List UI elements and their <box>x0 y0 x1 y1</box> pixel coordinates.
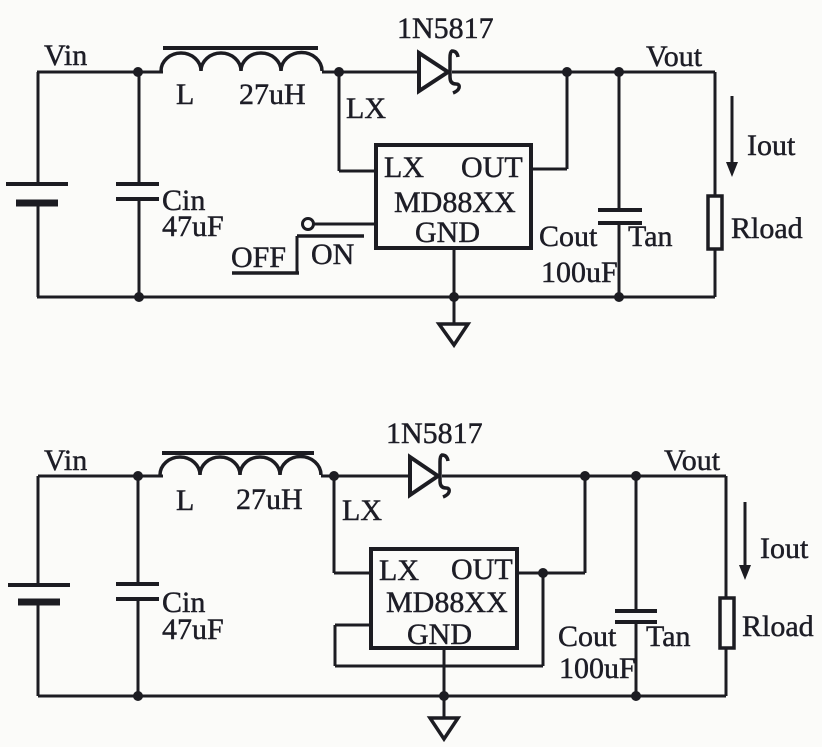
svg-text:Tan: Tan <box>646 620 691 653</box>
switch S1 pole circle <box>303 219 314 230</box>
inductor L2 core bar <box>162 451 314 455</box>
capacitor Cout top plate <box>598 208 642 212</box>
wire GND pin vertical <box>443 648 446 717</box>
svg-text:Cout: Cout <box>539 220 598 253</box>
resistor Rload body <box>708 196 722 249</box>
switch S1 step vertical <box>296 236 299 273</box>
wire FB loop vertical right <box>542 573 545 666</box>
node junction OUT-FB <box>538 568 548 578</box>
node junction LX <box>334 67 344 77</box>
capacitor Cout2 top plate <box>615 609 657 613</box>
svg-text:LX: LX <box>346 92 386 125</box>
svg-text:GND: GND <box>415 216 480 249</box>
svg-text:OUT: OUT <box>461 151 523 184</box>
node junction Cout top <box>614 67 624 77</box>
node junction GND-bottom rail <box>449 292 459 302</box>
svg-text:27uH: 27uH <box>239 78 306 111</box>
inductor L1 core bar <box>163 46 318 50</box>
svg-text:L: L <box>176 484 194 517</box>
wire GND pin vertical <box>453 248 456 323</box>
svg-text:Vout: Vout <box>664 444 721 477</box>
resistor Rload2 body <box>720 598 734 648</box>
wire LX branch horizontal to IC <box>339 170 376 173</box>
battery B2 long plate <box>8 583 70 587</box>
capacitor Cin top plate <box>116 182 159 186</box>
wire bottom rail <box>38 695 726 698</box>
wire left rail upper <box>37 72 40 184</box>
ground symbol <box>439 324 468 345</box>
svg-text:MD88XX: MD88XX <box>394 186 516 219</box>
svg-text:Cout: Cout <box>558 620 617 653</box>
svg-text:OUT: OUT <box>451 553 513 586</box>
node junction Vin-Cin <box>133 67 143 77</box>
svg-text:MD88XX: MD88XX <box>386 586 508 619</box>
svg-text:LX: LX <box>384 151 424 184</box>
svg-text:Vout: Vout <box>646 40 703 73</box>
svg-text:47uF: 47uF <box>162 210 224 243</box>
wire FB pin horizontal <box>335 624 371 627</box>
wire OUT riser <box>566 72 569 169</box>
op-amp U2 MD88XX box <box>371 549 517 648</box>
svg-text:Rload: Rload <box>742 610 814 643</box>
node junction LX2 <box>329 471 339 481</box>
wire right rail lower <box>714 249 717 297</box>
wire OUT pin horizontal <box>531 168 567 171</box>
capacitor Cout2 bottom plate <box>615 620 657 624</box>
node junction Cout2 top <box>631 471 641 481</box>
wire bottom rail <box>37 296 715 299</box>
wire left rail upper <box>37 476 40 585</box>
svg-text:27uH: 27uH <box>236 483 303 516</box>
svg-text:Tan: Tan <box>628 220 673 253</box>
battery B1 long plate <box>6 182 68 186</box>
svg-text:Iout: Iout <box>760 532 809 565</box>
svg-text:GND: GND <box>407 618 472 651</box>
svg-text:LX: LX <box>342 494 382 527</box>
svg-text:LX: LX <box>379 554 419 587</box>
diode D2 1N5817 triangle <box>410 457 438 495</box>
wire OUT riser <box>584 476 587 573</box>
battery B2 short plate <box>18 599 60 606</box>
inductor L1 windings <box>161 53 322 71</box>
capacitor Cin2 bottom plate <box>116 597 159 601</box>
wire LX branch horizontal to IC <box>334 572 371 575</box>
wire OUT pin horizontal <box>517 572 585 575</box>
diode D1 1N5817 triangle <box>419 53 448 91</box>
wire top rail left segment <box>37 71 163 74</box>
wire top rail mid segment <box>322 71 419 74</box>
wire right rail upper <box>725 476 728 598</box>
wire top rail left segment <box>38 475 163 478</box>
capacitor Cin2 top plate <box>116 582 159 586</box>
wire LX branch vertical <box>333 476 336 573</box>
wire FB loop vertical left <box>334 625 337 666</box>
svg-text:100uF: 100uF <box>541 256 618 289</box>
wire right rail upper <box>714 72 717 196</box>
wire LX branch vertical <box>338 72 341 171</box>
wire Cin branch upper <box>137 476 140 584</box>
node junction OUT riser top <box>580 471 590 481</box>
wire FB loop bottom <box>335 665 543 668</box>
capacitor Cin bottom plate <box>116 197 159 201</box>
wire Cin branch upper <box>138 72 141 184</box>
svg-text:Iout: Iout <box>747 129 796 162</box>
wire right rail lower <box>725 648 728 696</box>
svg-text:Vin: Vin <box>44 39 87 72</box>
wire Cout branch lower <box>635 622 638 696</box>
svg-text:Vin: Vin <box>44 444 87 477</box>
diode D1 schottky cathode bar <box>450 51 459 93</box>
inductor L2 windings <box>160 457 321 475</box>
wire left rail lower <box>37 206 40 297</box>
wire Cout branch upper <box>618 72 621 211</box>
wire left rail lower <box>37 605 40 696</box>
node junction Cout2 bottom <box>631 691 641 701</box>
wire Cout branch upper <box>635 476 638 611</box>
battery B1 short plate <box>16 200 58 207</box>
svg-text:Rload: Rload <box>731 212 803 245</box>
node junction Cout bottom <box>614 292 624 302</box>
node junction Cin bottom <box>134 292 144 302</box>
capacitor Cout bottom plate <box>598 221 642 225</box>
svg-text:ON: ON <box>311 238 354 271</box>
ground symbol <box>430 718 458 739</box>
wire Cin branch lower <box>137 599 140 696</box>
wire switch to IC <box>314 223 376 226</box>
diode D2 schottky cathode bar <box>440 455 449 497</box>
wire Cin branch lower <box>138 199 141 297</box>
wire top rail right segment <box>442 475 726 478</box>
node junction GND2-bottom rail <box>439 691 449 701</box>
node junction OUT riser top <box>562 67 572 77</box>
wire Cout branch lower <box>618 223 621 297</box>
wire top rail mid segment <box>321 475 410 478</box>
svg-text:1N5817: 1N5817 <box>397 12 494 45</box>
wire top rail right segment <box>452 71 715 74</box>
svg-text:L: L <box>176 78 194 111</box>
Iout current arrow <box>739 502 751 580</box>
node junction Vin-Cin2 <box>133 471 143 481</box>
svg-text:100uF: 100uF <box>559 652 636 685</box>
node junction Cin2 bottom <box>133 691 143 701</box>
switch S1 OFF contact bar <box>232 271 299 275</box>
svg-text:47uF: 47uF <box>162 613 224 646</box>
svg-text:OFF: OFF <box>231 241 286 274</box>
svg-text:1N5817: 1N5817 <box>386 417 483 450</box>
op-amp U1 MD88XX box <box>376 145 531 248</box>
switch S1 ON contact bar <box>297 234 364 238</box>
Iout current arrow <box>726 96 738 177</box>
